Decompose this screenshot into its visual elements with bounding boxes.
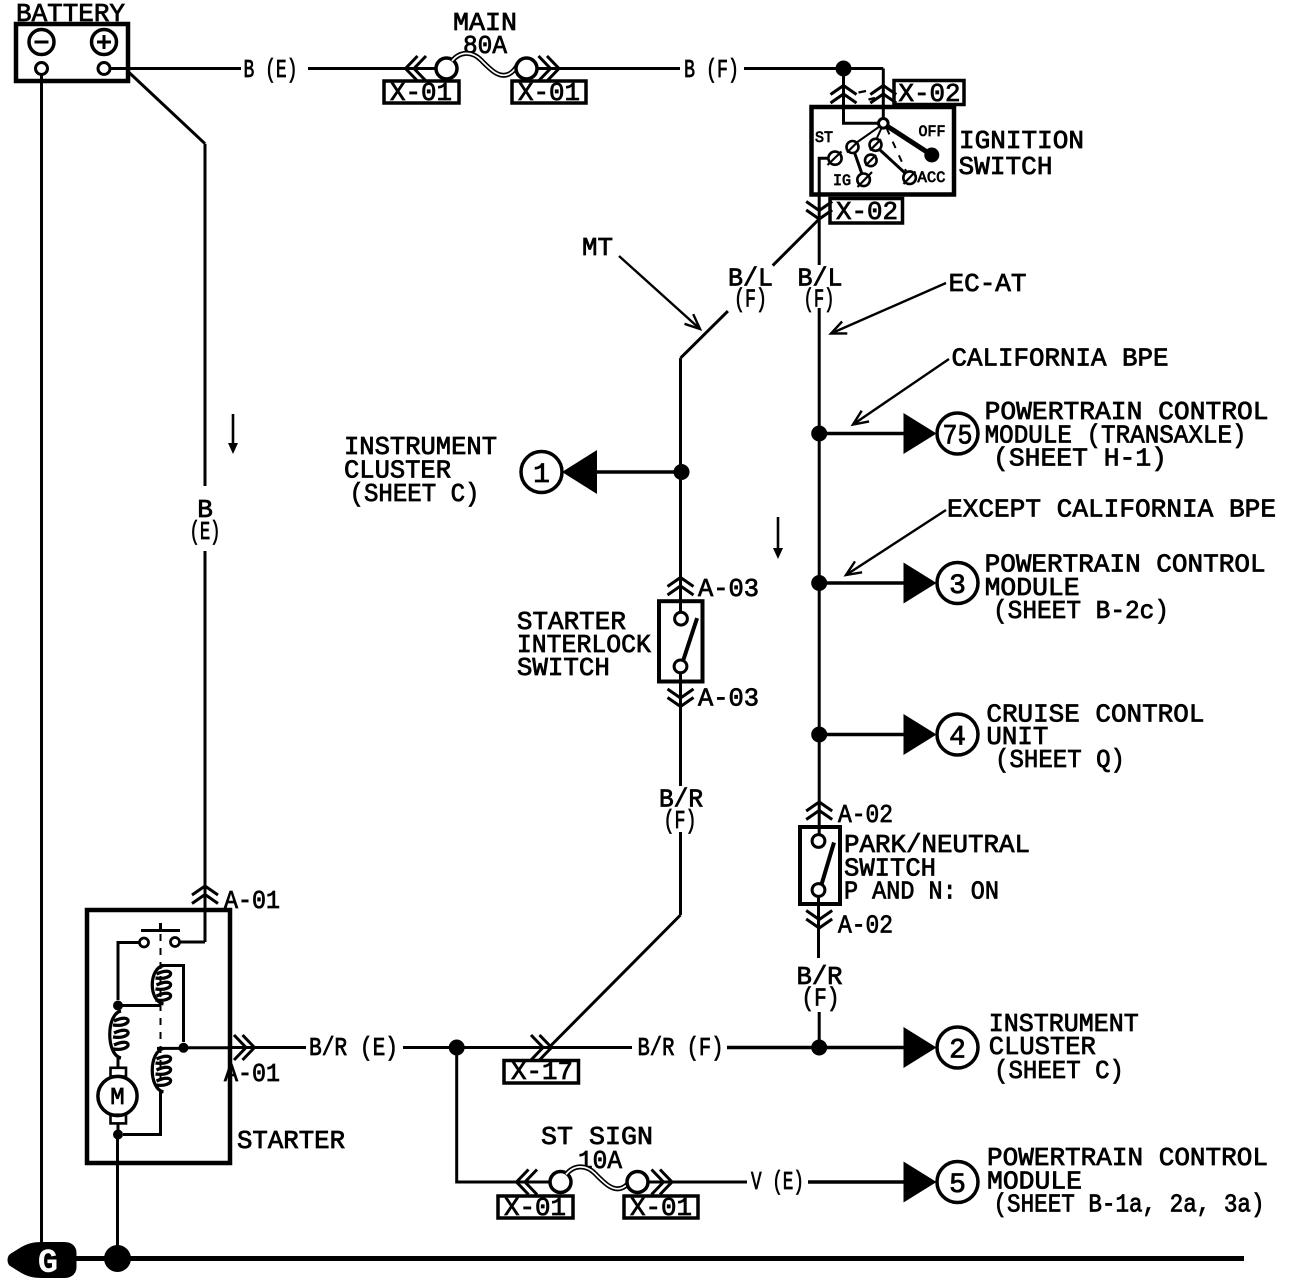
label MAIN bbox=[453, 8, 517, 38]
battery B1 label bbox=[16, 0, 125, 29]
svg-text:SWITCH: SWITCH bbox=[959, 152, 1053, 182]
svg-text:A-02: A-02 bbox=[838, 800, 893, 830]
ignition switch OFF position dot bbox=[924, 148, 939, 163]
svg-text:EXCEPT CALIFORNIA BPE: EXCEPT CALIFORNIA BPE bbox=[947, 495, 1276, 525]
label B/R (F) horizontal bbox=[638, 1033, 724, 1063]
svg-text:(E): (E) bbox=[190, 517, 221, 547]
label INSTRUMENT CLUSTER (SHEET C) upper bbox=[344, 432, 497, 509]
connector label A-02 top bbox=[838, 800, 893, 830]
connector label X-01 (main fuse right) bbox=[512, 78, 586, 108]
connector label A-03 top bbox=[698, 574, 759, 604]
flow arrow on EC-AT branch bbox=[773, 517, 783, 559]
svg-text:X-01: X-01 bbox=[518, 78, 580, 108]
starter pull-in coil bbox=[152, 966, 170, 1005]
label EC-AT bbox=[949, 269, 1027, 299]
connector chevrons X-02 top bbox=[831, 86, 897, 104]
wire starter feed vertical B(E) bbox=[204, 144, 207, 942]
label B (F) bbox=[684, 55, 739, 85]
wire ignition feed right drop bbox=[882, 69, 885, 119]
arrow to PCM 5 bbox=[904, 1162, 937, 1203]
park/neutral switch bottom contact bbox=[812, 884, 825, 897]
wire B/R(E) run bbox=[230, 1046, 632, 1049]
svg-text:10A: 10A bbox=[578, 1146, 622, 1176]
label OFF bbox=[919, 123, 946, 141]
svg-text:A-02: A-02 bbox=[838, 911, 893, 941]
svg-text:(SHEET C): (SHEET C) bbox=[350, 479, 480, 509]
fuse ST SIGN 10A right terminal bbox=[627, 1172, 648, 1193]
starter interlock switch case bbox=[659, 601, 703, 681]
wire junction to pull-in coil bbox=[118, 1004, 161, 1007]
ignition contact a bbox=[847, 141, 859, 153]
battery positive terminal symbol bbox=[92, 30, 117, 55]
wire hold-in coil bottom bbox=[123, 1092, 161, 1135]
wire pull-in coil top to output bbox=[161, 966, 184, 1043]
connector chevron X-01 left bbox=[406, 56, 427, 81]
wire ignition feed left drop bbox=[844, 69, 879, 124]
label IGNITION bbox=[959, 126, 1084, 156]
svg-text:X-01: X-01 bbox=[630, 1193, 692, 1223]
label B/R (F) vertical bbox=[797, 962, 843, 1014]
wire V(E) run bbox=[648, 1181, 904, 1184]
arrow to instrument cluster 1 bbox=[562, 450, 597, 494]
starter hold-in coil bbox=[152, 1048, 170, 1092]
label V (E) bbox=[751, 1167, 804, 1197]
flow arrow on starter feed bbox=[228, 414, 238, 454]
connector chevrons A-03 bottom bbox=[668, 689, 694, 707]
ignition contact IG bbox=[857, 172, 872, 187]
svg-text:B/R (E): B/R (E) bbox=[309, 1033, 398, 1063]
connector chevrons A-02 top bbox=[806, 802, 832, 820]
connector chevrons A-01 output bbox=[234, 1035, 255, 1060]
battery positive post bbox=[98, 63, 110, 75]
wire starter to ground bbox=[116, 1058, 120, 1259]
battery negative post bbox=[36, 63, 48, 75]
svg-text:80A: 80A bbox=[463, 31, 507, 61]
node starter output junction bbox=[179, 1043, 189, 1053]
ignition contact ST bbox=[828, 152, 842, 166]
svg-text:75: 75 bbox=[943, 422, 973, 453]
wire to PCM bbox=[819, 581, 903, 585]
connector label A-02 bottom bbox=[838, 911, 893, 941]
arrow to PCM bbox=[904, 563, 937, 604]
label CALIFORNIA BPE bbox=[952, 344, 1169, 374]
node junction PCM row bbox=[811, 575, 827, 591]
fuse MAIN 80A left terminal bbox=[436, 58, 457, 79]
starter solenoid plunger bar bbox=[141, 923, 180, 931]
arrow to PCM transaxle bbox=[904, 413, 937, 454]
connector chevrons A-03 top bbox=[668, 578, 694, 596]
svg-text:(SHEET B-1a, 2a, 3a): (SHEET B-1a, 2a, 3a) bbox=[994, 1190, 1265, 1220]
svg-text:SWITCH: SWITCH bbox=[517, 653, 610, 683]
node junction B(F) branch bbox=[836, 61, 852, 77]
svg-text:STARTER: STARTER bbox=[237, 1126, 345, 1156]
label MT bbox=[582, 233, 613, 263]
svg-text:(F): (F) bbox=[664, 806, 697, 836]
wire interlock to X-17 diagonal bbox=[550, 915, 681, 1047]
wire to instrument cluster 1 bbox=[597, 470, 682, 474]
wire B/R(F) run bbox=[727, 1046, 904, 1050]
svg-text:A-03: A-03 bbox=[698, 684, 759, 714]
svg-text:2: 2 bbox=[949, 1036, 966, 1067]
svg-text:B/R (F): B/R (F) bbox=[638, 1033, 724, 1063]
battery B1 case bbox=[16, 24, 128, 81]
node junction cruise control row bbox=[811, 727, 827, 743]
connector label X-02 top bbox=[894, 79, 964, 109]
ignition switch case bbox=[812, 107, 955, 195]
label B (E) vertical bbox=[190, 495, 221, 547]
label ACC bbox=[918, 169, 946, 187]
sheet circle 75 bbox=[937, 413, 978, 454]
svg-text:(F): (F) bbox=[734, 285, 767, 315]
label B (E) top bbox=[244, 55, 298, 85]
label INSTRUMENT CLUSTER (SHEET C) lower bbox=[989, 1009, 1139, 1086]
node junction instrument cluster 2 bbox=[811, 1040, 827, 1056]
ignition contact b bbox=[870, 139, 882, 151]
connector chevrons X-02 bottom bbox=[806, 202, 832, 220]
ignition blade a-IG bbox=[855, 153, 863, 175]
connector label X-17 bbox=[504, 1057, 579, 1087]
starter brush top bbox=[111, 1068, 127, 1077]
wire starter relay left down bbox=[118, 943, 140, 1001]
ignition spoke to contact b bbox=[877, 128, 882, 139]
label PARK/NEUTRAL SWITCH P AND N: ON bbox=[844, 830, 1030, 907]
wire starter relay right to A-01 bbox=[180, 910, 206, 942]
label B/L (F) right bbox=[798, 264, 843, 315]
svg-text:X-01: X-01 bbox=[504, 1193, 566, 1223]
connector chevrons A-01 top bbox=[192, 886, 218, 904]
svg-text:IG: IG bbox=[833, 172, 851, 190]
leader arrow EC-AT bbox=[831, 283, 946, 334]
svg-text:B (F): B (F) bbox=[684, 55, 739, 85]
svg-text:MT: MT bbox=[582, 233, 613, 263]
wire ignition ST terminal out bbox=[819, 158, 828, 194]
connector label X-01 (main fuse left) bbox=[384, 78, 459, 108]
label 80A bbox=[463, 31, 507, 61]
starter case bbox=[87, 910, 230, 1163]
label POWERTRAIN CONTROL MODULE (TRANSAXLE) bbox=[985, 397, 1269, 474]
wire branch to ST SIGN fuse bbox=[457, 1048, 550, 1183]
starter interlock switch blade bbox=[683, 618, 697, 660]
connector label X-02 bottom bbox=[830, 197, 903, 227]
ignition blade b-ACC bbox=[880, 150, 906, 174]
wire MT branch vertical bbox=[679, 358, 682, 915]
fuse ST SIGN 10A left terminal bbox=[550, 1172, 571, 1193]
wire fuse to ignition switch (B(F)) bbox=[537, 67, 883, 70]
svg-text:5: 5 bbox=[949, 1170, 966, 1201]
arrow to cruise control unit bbox=[904, 714, 937, 755]
ground symbol G bbox=[8, 1243, 76, 1284]
connector chevron X-01 (ST SIGN right) bbox=[652, 1170, 673, 1195]
svg-text:(SHEET C): (SHEET C) bbox=[994, 1056, 1124, 1086]
starter field coil bbox=[110, 1011, 128, 1058]
wire battery negative to ground G bbox=[40, 75, 43, 1245]
svg-text:OFF: OFF bbox=[919, 123, 946, 141]
park/neutral switch case bbox=[800, 827, 840, 904]
sheet circle 4 bbox=[937, 714, 978, 755]
fuse MAIN 80A element bbox=[452, 53, 518, 75]
park/neutral switch top contact bbox=[812, 835, 825, 848]
svg-text:X-17: X-17 bbox=[511, 1057, 573, 1087]
wire ignition ST below box bbox=[818, 195, 821, 220]
starter relay contact left bbox=[140, 938, 149, 947]
svg-text:ACC: ACC bbox=[918, 169, 946, 187]
svg-text:EC-AT: EC-AT bbox=[949, 269, 1027, 299]
node starter junction lower bbox=[113, 1130, 123, 1140]
svg-text:P AND N: ON: P AND N: ON bbox=[844, 877, 999, 907]
label 10A bbox=[578, 1146, 622, 1176]
starter solenoid plunger dashed link bbox=[160, 934, 162, 1088]
label STARTER INTERLOCK SWITCH bbox=[517, 607, 651, 683]
svg-text:(F): (F) bbox=[802, 984, 840, 1014]
sheet circle 3 bbox=[937, 563, 978, 604]
connector label A-01 output bbox=[224, 1059, 280, 1089]
starter interlock switch bottom contact bbox=[674, 660, 687, 673]
ignition switch rotor pivot bbox=[879, 119, 889, 129]
fuse MAIN 80A right terminal bbox=[516, 58, 537, 79]
label ST bbox=[815, 129, 833, 147]
svg-text:A-01: A-01 bbox=[224, 886, 280, 916]
starter relay contact right bbox=[171, 938, 180, 947]
svg-text:X-02: X-02 bbox=[836, 197, 898, 227]
connector chevrons X-17 bbox=[531, 1035, 552, 1060]
leader arrow EXCEPT CALIFORNIA BPE bbox=[846, 510, 946, 575]
svg-text:ST: ST bbox=[815, 129, 833, 147]
battery negative terminal symbol bbox=[29, 30, 54, 55]
label POWERTRAIN CONTROL MODULE (SHEET B-1a, 2a, 3a) bbox=[987, 1143, 1268, 1220]
sheet circle 2 bbox=[937, 1027, 978, 1068]
leader arrow MT bbox=[619, 256, 700, 329]
node junction ST SIGN branch bbox=[449, 1040, 465, 1056]
ignition contact center bbox=[865, 155, 877, 167]
label EXCEPT CALIFORNIA BPE bbox=[947, 495, 1276, 525]
svg-text:A-03: A-03 bbox=[698, 574, 759, 604]
svg-text:(SHEET B-2c): (SHEET B-2c) bbox=[993, 596, 1169, 626]
label STARTER bbox=[237, 1126, 345, 1156]
motor M armature bbox=[98, 1076, 137, 1115]
starter brush bottom bbox=[111, 1115, 127, 1124]
arrow to instrument cluster 2 bbox=[904, 1027, 937, 1068]
connector label X-01 (ST SIGN right) bbox=[624, 1193, 698, 1223]
svg-text:A-01: A-01 bbox=[224, 1059, 280, 1089]
label IG bbox=[833, 172, 851, 190]
label B/L (F) left bbox=[728, 264, 773, 315]
label SWITCH (ignition) bbox=[959, 152, 1053, 182]
wire battery diagonal to starter branch bbox=[128, 72, 205, 144]
label CRUISE CONTROL UNIT (SHEET Q) bbox=[986, 700, 1204, 776]
sheet circle 5 bbox=[937, 1162, 978, 1203]
connector label X-01 (ST SIGN left) bbox=[498, 1193, 573, 1223]
wire hold-in coil top bbox=[157, 1047, 184, 1050]
label POWERTRAIN CONTROL MODULE (SHEET B-2c) bbox=[985, 550, 1266, 627]
svg-text:B (E): B (E) bbox=[244, 55, 298, 85]
svg-text:4: 4 bbox=[949, 723, 966, 754]
wire park/neutral down bbox=[817, 896, 821, 1047]
node ground junction bbox=[104, 1245, 131, 1272]
wire battery positive to main fuse (B(E)) bbox=[110, 67, 436, 70]
starter interlock switch top contact bbox=[675, 612, 688, 625]
svg-text:CALIFORNIA BPE: CALIFORNIA BPE bbox=[952, 344, 1169, 374]
connector label A-03 bottom bbox=[698, 684, 759, 714]
svg-text:V (E): V (E) bbox=[751, 1167, 804, 1197]
park/neutral switch blade bbox=[822, 843, 835, 885]
wire brush to lower junction bbox=[117, 1123, 120, 1134]
ignition contact ACC bbox=[903, 171, 916, 184]
node junction instrument cluster 1 bbox=[674, 464, 690, 480]
node starter junction upper bbox=[113, 1001, 123, 1011]
connector chevrons A-02 bottom bbox=[806, 911, 832, 929]
node junction PCM transaxle row bbox=[811, 426, 827, 442]
svg-text:1: 1 bbox=[533, 460, 550, 491]
svg-text:M: M bbox=[110, 1085, 124, 1112]
svg-text:(SHEET H-1): (SHEET H-1) bbox=[993, 444, 1167, 474]
ignition switch arm to OFF bbox=[887, 126, 927, 152]
fuse ST SIGN 10A element bbox=[566, 1167, 632, 1189]
ignition dashed spoke to ACC bbox=[887, 128, 907, 171]
svg-text:3: 3 bbox=[949, 571, 966, 602]
sheet circle 1 bbox=[521, 452, 562, 493]
wire to cruise control unit bbox=[819, 733, 903, 737]
label ST SIGN bbox=[541, 1122, 653, 1152]
ignition spoke to contact a bbox=[856, 127, 880, 144]
svg-text:X-02: X-02 bbox=[899, 79, 961, 109]
wire MT branch diagonal bbox=[681, 219, 820, 358]
svg-text:X-01: X-01 bbox=[390, 78, 452, 108]
wire starter output B/R(E) bbox=[184, 1046, 231, 1049]
wire EC-AT branch vertical bbox=[818, 219, 821, 835]
ground bus bbox=[70, 1256, 1244, 1261]
wire to PCM transaxle bbox=[819, 432, 903, 436]
leader arrow CALIFORNIA BPE bbox=[853, 359, 949, 425]
label B/R (F) interlock branch bbox=[659, 785, 703, 837]
connector chevron X-01 right bbox=[539, 56, 560, 81]
svg-text:(SHEET Q): (SHEET Q) bbox=[995, 745, 1125, 775]
label B/R (E) bbox=[309, 1033, 398, 1063]
connector label A-01 top bbox=[224, 886, 280, 916]
connector chevron X-01 (ST SIGN left) bbox=[517, 1170, 538, 1195]
svg-text:G: G bbox=[38, 1245, 58, 1283]
